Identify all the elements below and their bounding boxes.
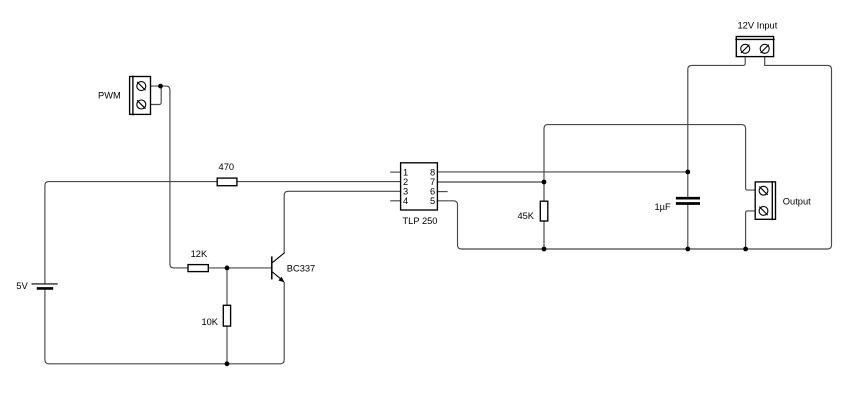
terminal block PWM bbox=[130, 76, 151, 116]
resistor R 45K bbox=[540, 201, 548, 221]
terminal block 12V Input bbox=[735, 37, 774, 57]
node: base junction bbox=[225, 266, 230, 271]
wire: 10K bottom vertical bbox=[226, 326, 228, 364]
wire: collector up and right to TLP pin 3 bbox=[284, 191, 400, 253]
node: 45K bottom junction bbox=[542, 247, 547, 252]
svg-text:1: 1 bbox=[403, 167, 408, 177]
wire: TLP pin 8 to capacitor node bbox=[437, 171, 687, 173]
wire: 45K bottom to bottom rail bbox=[543, 221, 545, 249]
svg-text:10K: 10K bbox=[201, 317, 218, 327]
wire: battery bottom down, bottom rail, up to transistor emitter bbox=[45, 282, 284, 364]
node: pin8/capacitor junction bbox=[685, 170, 690, 175]
resistor R 12K bbox=[188, 265, 208, 272]
wire: PWM top screw to junction then down to 12K input bbox=[151, 86, 189, 268]
svg-text:Output: Output bbox=[783, 196, 811, 206]
node: output bottom junction bbox=[743, 247, 748, 252]
svg-text:4: 4 bbox=[403, 196, 408, 206]
wire: 45K node up, across top, down to Output top screw bbox=[544, 125, 755, 202]
wire: PWM bottom screw link up to junction bbox=[151, 86, 162, 104]
wire: TLP pin 7 to 45K node bbox=[437, 181, 544, 183]
svg-text:7: 7 bbox=[430, 177, 435, 187]
svg-text:1µF: 1µF bbox=[655, 202, 672, 212]
resistor R 10K bbox=[223, 305, 230, 326]
wire: TLP pin 1 stub bbox=[390, 171, 400, 173]
node: PWM junction bbox=[158, 84, 163, 89]
wire: capacitor bottom to bottom rail bbox=[687, 205, 689, 249]
wire: 12V left screw down-left and down through capacitor node bbox=[688, 57, 745, 197]
svg-text:3: 3 bbox=[403, 187, 408, 197]
svg-text:470: 470 bbox=[219, 162, 235, 172]
svg-text:8: 8 bbox=[430, 167, 435, 177]
svg-text:6: 6 bbox=[430, 187, 435, 197]
svg-text:TLP 250: TLP 250 bbox=[403, 216, 438, 226]
svg-text:5: 5 bbox=[430, 196, 435, 206]
svg-text:PWM: PWM bbox=[98, 90, 121, 100]
terminal block Output bbox=[755, 181, 775, 220]
node: capacitor bottom junction bbox=[685, 247, 690, 252]
node: bottom rail junction bbox=[225, 361, 230, 366]
wire: TLP pin 6 stub bbox=[437, 191, 447, 193]
wire: left vertical from battery + up to main horizontal to TLP pin 2 bbox=[45, 182, 401, 284]
svg-text:12V Input: 12V Input bbox=[738, 21, 778, 31]
wire: TLP pin 4 stub bbox=[390, 200, 400, 202]
capacitor C1 1uF bbox=[676, 198, 700, 203]
wire: 12K right to transistor base bbox=[208, 267, 271, 269]
battery 5V bbox=[32, 284, 58, 289]
resistor R 470 bbox=[217, 178, 237, 186]
wire: TLP pin 5 down along bottom rail, up right side to 12V right screw bbox=[437, 57, 831, 249]
svg-text:2: 2 bbox=[403, 177, 408, 187]
wire: Output bottom screw down to bottom rail bbox=[746, 211, 756, 249]
svg-text:12K: 12K bbox=[191, 249, 208, 259]
svg-text:BC337: BC337 bbox=[287, 264, 315, 274]
node: pin7/45K junction bbox=[542, 180, 547, 185]
svg-text:45K: 45K bbox=[517, 211, 534, 221]
wire: 10K top vertical bbox=[226, 268, 228, 305]
transistor Q1 BC337 bbox=[272, 253, 285, 283]
op-amp U1 TLP 250 bbox=[401, 163, 438, 210]
svg-text:5V: 5V bbox=[16, 281, 28, 291]
